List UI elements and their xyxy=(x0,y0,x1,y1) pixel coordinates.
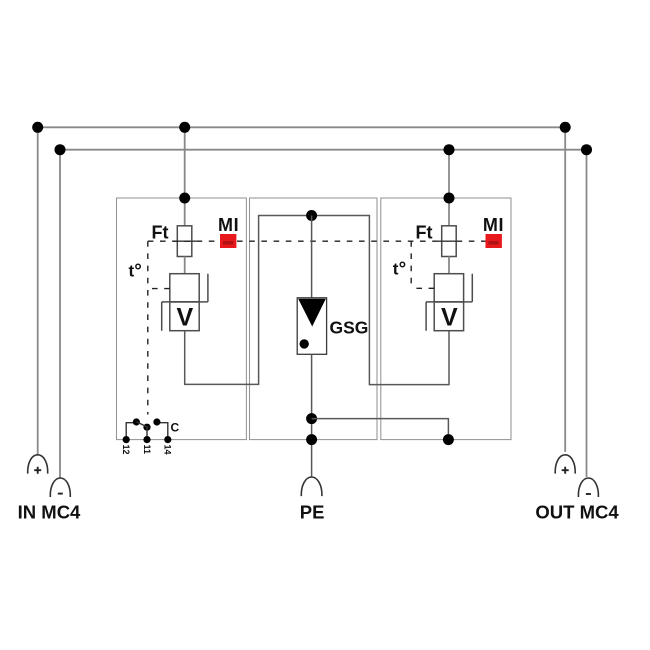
node: PE junction lower xyxy=(306,434,317,445)
wire: OUT + drop xyxy=(564,127,566,452)
dashed vertical: t°2 xyxy=(410,241,412,288)
svg-text:14: 14 xyxy=(163,445,173,455)
red indicator MI2 xyxy=(486,234,502,248)
svg-text:OUT MC4: OUT MC4 xyxy=(535,502,619,523)
varistor V1 box xyxy=(170,302,199,331)
dashed line crossing fuse1 xyxy=(173,240,197,242)
minus sign OUT xyxy=(586,493,591,495)
dashed branch: t°1 to disconnect xyxy=(148,288,170,290)
fuse Ft1 xyxy=(177,226,192,257)
node: bus2 left end xyxy=(55,144,66,155)
terminal IN + arch xyxy=(28,455,48,474)
spark gap triangle xyxy=(298,299,326,327)
node: bus1 right end xyxy=(560,122,571,133)
plus sign OUT xyxy=(562,467,569,474)
module box 2 (center module) xyxy=(250,198,378,440)
svg-text:C: C xyxy=(171,421,180,435)
module box 1 (left protection module) xyxy=(117,198,247,440)
wire: fuse2 to disconnect2 xyxy=(448,257,450,274)
spark gap GSG box xyxy=(297,298,326,355)
dashed branch: t°2 to disconnect xyxy=(411,287,434,289)
svg-text:12: 12 xyxy=(121,445,131,455)
fuse Ft2 xyxy=(442,226,457,257)
svg-text:V: V xyxy=(177,303,194,331)
wire: IN - drop xyxy=(59,150,61,478)
wire: feed to module 1 xyxy=(184,127,186,226)
plus sign IN xyxy=(34,467,41,474)
varistor V2 box xyxy=(434,302,463,331)
remote contact pivot dot 11 xyxy=(143,424,150,431)
svg-text:V: V xyxy=(441,303,458,331)
wire: V1 bottom to center loop xyxy=(185,216,449,385)
node: PE junction upper xyxy=(306,413,317,424)
svg-text:11: 11 xyxy=(142,445,152,455)
wire: GSG top lead xyxy=(311,216,313,298)
remote contact pin 12 lead xyxy=(126,423,136,440)
dashed vertical: t° / remote contact module 1 xyxy=(147,241,149,414)
svg-text:IN MC4: IN MC4 xyxy=(18,502,81,523)
spark gap dot xyxy=(300,339,309,348)
minus sign IN xyxy=(58,493,63,495)
wire: PE link to module 3 xyxy=(312,419,449,440)
remote contact pin 11 lead xyxy=(146,427,148,439)
svg-text:Ft: Ft xyxy=(152,223,169,243)
wire: OUT - drop xyxy=(586,150,588,477)
wire: second bus (-) xyxy=(60,149,587,151)
svg-text:PE: PE xyxy=(300,502,325,523)
svg-text:Ft: Ft xyxy=(416,223,433,243)
terminal OUT + arch xyxy=(555,455,575,474)
terminal OUT - arch xyxy=(578,478,598,497)
thermal disconnect box 2 xyxy=(434,274,463,302)
node: pin 11 bottom xyxy=(143,436,150,443)
node: module1 top xyxy=(179,193,190,204)
remote contact fixed dot 12 xyxy=(133,418,140,425)
node: module3 top xyxy=(444,193,455,204)
wire: IN + drop xyxy=(37,127,39,454)
dashed line crossing fuse2 xyxy=(437,240,461,242)
remote contact arm xyxy=(136,422,148,428)
svg-text:°: ° xyxy=(399,259,407,280)
node: pin 12 bottom xyxy=(123,436,130,443)
node: module3 bottom xyxy=(443,434,454,445)
node: bus1 left end xyxy=(32,122,43,133)
varistor V1 bar and arms xyxy=(162,274,208,331)
red indicator MI1 xyxy=(220,234,236,248)
thermal disconnect box 1 xyxy=(170,274,199,302)
wire: feed to module 3 xyxy=(448,150,450,226)
module box 3 (right protection module) xyxy=(381,198,511,440)
dashed line: MI link left module xyxy=(148,240,220,242)
remote contact fixed dot 14 xyxy=(153,418,160,425)
terminal PE arch xyxy=(301,477,322,496)
wire: top bus (+) xyxy=(38,126,566,128)
node: GSG top xyxy=(306,210,317,221)
svg-text:GSG: GSG xyxy=(330,317,369,337)
node: pin 14 bottom xyxy=(164,436,171,443)
wire: GSG bottom lead to PE xyxy=(311,354,313,477)
terminal IN - arch xyxy=(50,478,70,497)
node: bus2 / module3 feed xyxy=(444,144,455,155)
varistor V2 bar and arms xyxy=(426,274,472,331)
node: bus1 / module1 feed xyxy=(179,122,190,133)
svg-text:°: ° xyxy=(134,261,142,282)
node: bus2 right end xyxy=(581,144,592,155)
wire: fuse1 to disconnect1 xyxy=(184,257,186,274)
svg-text:MI: MI xyxy=(218,215,239,235)
dashed line: MI link middle span xyxy=(237,240,486,242)
svg-text:MI: MI xyxy=(483,215,504,235)
remote contact pin 14 lead xyxy=(157,423,168,440)
